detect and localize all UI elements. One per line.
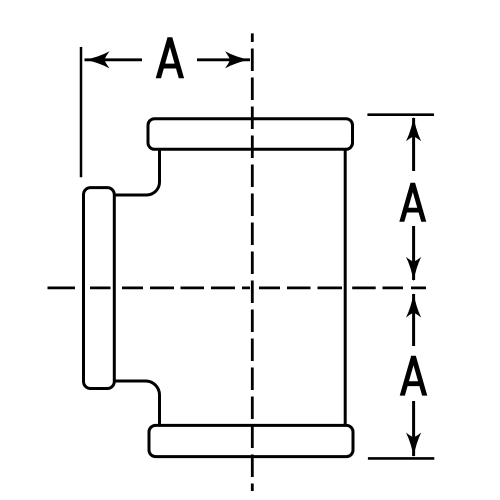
tee body right wall: [344, 150, 347, 425]
tee top band: [148, 119, 353, 150]
right dimension extension line (top): [367, 113, 434, 116]
right dimension extension line (bottom): [368, 457, 434, 460]
left branch flange: [84, 188, 115, 389]
tee bottom band: [149, 425, 353, 456]
arrowhead left (top dimension): [85, 51, 110, 68]
right dimension shaft upper-1: [412, 118, 415, 171]
right dimension shaft lower-1: [412, 294, 415, 346]
top dimension line right segment: [197, 58, 250, 61]
tee body left wall lower + branch bottom edge: [115, 381, 160, 425]
label A (top dimension): [156, 37, 184, 78]
top dimension extension line (left): [80, 47, 83, 177]
arrowhead up (lower A, at centerline): [406, 293, 421, 318]
label A (lower right dimension): [400, 356, 428, 396]
vertical centerline (dashed): [251, 33, 254, 491]
tee body left wall upper + branch top edge: [115, 150, 160, 195]
horizontal centerline (dashed): [48, 286, 427, 289]
right dimension shaft upper-2: [412, 226, 415, 280]
arrowhead right (top dimension): [225, 51, 250, 68]
arrowhead down (lower A, at bottom band): [406, 433, 421, 458]
arrowhead down (upper A, at centerline): [406, 257, 421, 282]
right dimension shaft lower-2: [412, 401, 415, 456]
arrowhead up (upper A, at top band): [406, 117, 421, 142]
label A (upper right dimension): [399, 183, 426, 222]
top dimension line left segment: [85, 58, 143, 61]
